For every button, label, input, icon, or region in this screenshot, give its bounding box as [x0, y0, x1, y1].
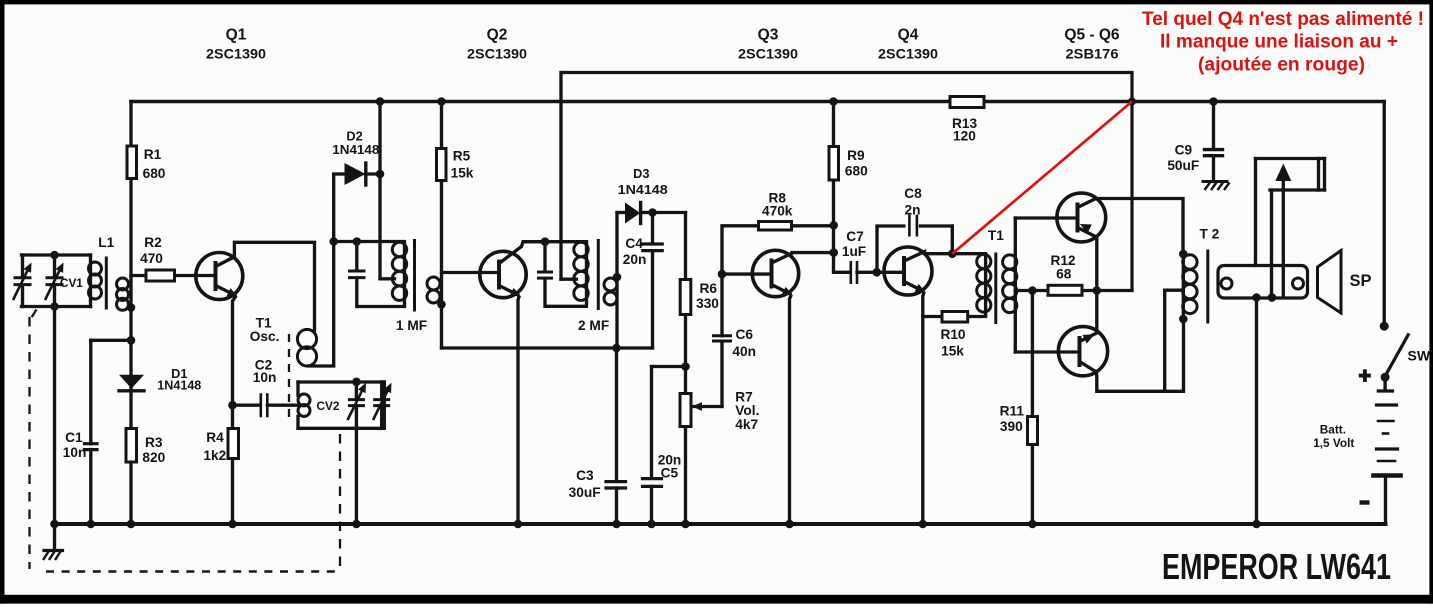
svg-text:1 MF: 1 MF [396, 318, 427, 333]
svg-text:T1: T1 [988, 228, 1004, 243]
svg-text:R2: R2 [144, 235, 162, 250]
svg-text:C9: C9 [1175, 143, 1193, 158]
svg-text:EMPEROR LW641: EMPEROR LW641 [1162, 546, 1391, 587]
svg-text:Osc.: Osc. [250, 329, 280, 344]
svg-text:2n: 2n [905, 203, 921, 218]
svg-text:Q5 - Q6: Q5 - Q6 [1064, 27, 1120, 44]
svg-text:R11: R11 [1000, 404, 1025, 419]
svg-text:15k: 15k [941, 344, 964, 359]
svg-text:R10: R10 [940, 327, 965, 342]
svg-text:R5: R5 [453, 149, 471, 164]
svg-text:Vol.: Vol. [735, 403, 759, 418]
svg-text:1N4148: 1N4148 [332, 142, 379, 157]
svg-text:SW: SW [1408, 348, 1431, 364]
svg-text:R6: R6 [700, 281, 718, 296]
svg-text:2SC1390: 2SC1390 [738, 46, 798, 62]
svg-text:T 2: T 2 [1200, 226, 1220, 241]
svg-text:C6: C6 [735, 327, 753, 342]
svg-text:R4: R4 [206, 430, 224, 445]
svg-text:Q3: Q3 [758, 27, 779, 44]
svg-text:20n: 20n [623, 252, 647, 267]
svg-text:C3: C3 [576, 468, 594, 483]
svg-text:10n: 10n [253, 370, 277, 385]
svg-text:Batt.: Batt. [1320, 423, 1346, 437]
svg-text:CV1: CV1 [60, 276, 83, 290]
svg-text:120: 120 [953, 129, 976, 144]
svg-text:Il manque une liaison au +: Il manque une liaison au + [1160, 32, 1398, 53]
svg-text:1k2: 1k2 [203, 448, 226, 463]
svg-text:C4: C4 [625, 236, 643, 251]
svg-text:Q1: Q1 [226, 27, 247, 44]
svg-text:2SC1390: 2SC1390 [467, 46, 527, 62]
svg-text:R9: R9 [847, 148, 865, 163]
svg-text:470k: 470k [762, 204, 793, 219]
svg-text:68: 68 [1056, 267, 1072, 282]
svg-text:50uF: 50uF [1167, 158, 1199, 173]
svg-text:330: 330 [696, 296, 719, 311]
svg-text:680: 680 [143, 166, 166, 181]
svg-text:4k7: 4k7 [735, 417, 758, 432]
svg-text:2SC1390: 2SC1390 [878, 46, 938, 62]
svg-text:Q4: Q4 [898, 27, 919, 44]
svg-text:30uF: 30uF [569, 485, 601, 500]
svg-text:R3: R3 [145, 435, 163, 450]
svg-text:2SB176: 2SB176 [1066, 46, 1119, 62]
svg-text:CV2: CV2 [317, 399, 340, 413]
svg-text:390: 390 [1000, 419, 1023, 434]
svg-text:470: 470 [140, 251, 163, 266]
svg-text:C5: C5 [661, 466, 679, 481]
svg-text:Q2: Q2 [487, 27, 508, 44]
svg-text:10n: 10n [63, 445, 87, 460]
svg-text:1uF: 1uF [842, 244, 866, 259]
svg-text:(ajoutée en rouge): (ajoutée en rouge) [1198, 55, 1365, 76]
svg-text:2 MF: 2 MF [578, 318, 609, 333]
svg-text:Tel quel Q4 n'est pas alimenté: Tel quel Q4 n'est pas alimenté ! [1142, 9, 1424, 30]
svg-text:15k: 15k [451, 166, 474, 181]
svg-text:SP: SP [1349, 272, 1371, 290]
svg-text:C1: C1 [65, 430, 83, 445]
svg-text:C7: C7 [846, 229, 864, 244]
svg-text:1N4148: 1N4148 [618, 182, 668, 197]
svg-text:R7: R7 [735, 389, 753, 404]
svg-text:1N4148: 1N4148 [157, 378, 201, 393]
svg-text:820: 820 [142, 450, 165, 465]
svg-text:680: 680 [845, 164, 868, 179]
svg-text:L1: L1 [98, 235, 114, 250]
svg-text:2SC1390: 2SC1390 [206, 46, 266, 62]
svg-text:40n: 40n [732, 344, 756, 359]
svg-text:C8: C8 [904, 186, 922, 201]
svg-text:1,5 Volt: 1,5 Volt [1313, 436, 1354, 450]
svg-text:D3: D3 [633, 166, 649, 181]
svg-text:R1: R1 [144, 147, 162, 162]
